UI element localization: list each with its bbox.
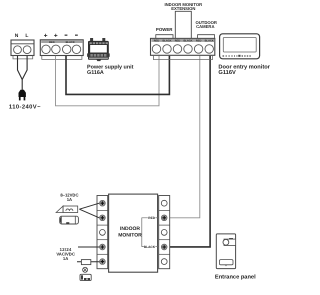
wire strike to terminal 1 (79, 203, 99, 209)
wire mains N (18, 56, 23, 80)
fuse F1 (81, 260, 90, 265)
svg-text:BLACK: BLACK (66, 41, 75, 44)
right terminal screws (161, 200, 167, 264)
svg-text:BLACK: BLACK (183, 40, 192, 43)
svg-text:RED: RED (196, 40, 202, 43)
terminal block TB2 power supply input (40, 40, 83, 56)
door entry monitor icon (220, 34, 260, 59)
svg-text:RED: RED (148, 216, 155, 220)
extension bracket box (175, 11, 191, 38)
indoor monitor left terminal strip (97, 196, 108, 269)
entrance panel icon (216, 234, 235, 269)
wire with fuse to terminal 5 (77, 261, 99, 263)
automation device icon (80, 274, 91, 280)
lamp symbol (83, 267, 88, 272)
left terminal screws (100, 200, 106, 264)
wire strike to terminal 2 (79, 209, 99, 218)
wire C camera red (TB3 to indoor monitor) (170, 56, 200, 218)
wire B power black (TB2 to TB3) (66, 56, 169, 95)
wire label to terminal 4 (78, 246, 99, 248)
svg-text:RED: RED (154, 40, 160, 43)
svg-text:MONITOR: MONITOR (118, 232, 142, 238)
labels RED/BLACK on TB3 (154, 40, 214, 43)
cable bracket under TB2 (42, 56, 82, 60)
svg-text:Entrance panel: Entrance panel (215, 273, 256, 280)
svg-text:G116A: G116A (87, 70, 104, 76)
svg-text:N: N (15, 33, 19, 39)
power bracket (156, 35, 173, 38)
wire A power red (TB2 to TB3) (56, 56, 160, 106)
svg-text:1A: 1A (67, 197, 72, 202)
cable bracket under TB1 (13, 56, 33, 59)
lock release icon (60, 216, 79, 224)
mains cord (21, 80, 23, 91)
svg-text:+: + (44, 33, 48, 40)
svg-text:BLACK: BLACK (144, 245, 156, 249)
svg-text:CAMERA: CAMERA (196, 24, 214, 29)
svg-text:L: L (25, 33, 28, 39)
camera bracket (198, 35, 215, 38)
indoor monitor main box (109, 194, 158, 272)
mains plug (19, 90, 26, 97)
indoor monitor right terminal strip (159, 196, 170, 269)
power supply unit G116A icon (87, 38, 110, 61)
cable bracket under TB3 (154, 56, 213, 60)
label - (65, 35, 68, 36)
wire D camera black (TB3 to indoor monitor) (170, 56, 210, 247)
svg-text:G116V: G116V (218, 70, 236, 76)
svg-text:BLACK: BLACK (162, 40, 171, 43)
svg-text:POWER: POWER (156, 27, 173, 32)
terminal block TB3 monitor 6-way (151, 38, 215, 55)
svg-text:110-240V~: 110-240V~ (9, 104, 41, 111)
svg-text:BLACK: BLACK (205, 40, 214, 43)
svg-text:RED: RED (175, 40, 181, 43)
label - (75, 35, 78, 36)
red/black pair bracket (142, 218, 148, 247)
svg-text:1A: 1A (63, 256, 68, 261)
svg-text:EXTENSION: EXTENSION (171, 6, 195, 11)
svg-text:+: + (54, 33, 58, 40)
wire mains L (22, 56, 27, 80)
electric door strike icon (56, 206, 78, 213)
svg-text:RED: RED (49, 41, 55, 44)
terminal block TB1 mains N/L (11, 40, 34, 56)
svg-text:INDOOR: INDOOR (120, 226, 140, 232)
